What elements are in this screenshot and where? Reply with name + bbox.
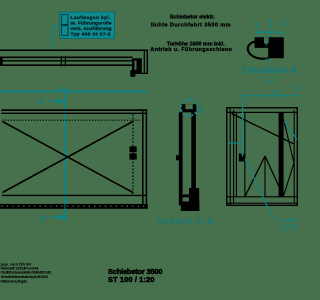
svg-text:X: X [200, 106, 205, 115]
right view top diagonal [232, 114, 295, 145]
section arrow bottom [50, 216, 59, 218]
right view panel edge mid [244, 112, 246, 196]
callout leader [52, 26, 59, 48]
svg-text:ST 100 / 1:20: ST 100 / 1:20 [108, 275, 155, 284]
top view splice tick 2 [64, 56, 66, 67]
svg-text:A: A [40, 213, 46, 223]
detail dim drop 1 [255, 32, 257, 37]
section view top cap notch [185, 104, 192, 109]
front view right post line 2 [145, 110, 147, 205]
section view right wall [191, 112, 196, 202]
right view post bar [279, 112, 284, 196]
right view tent leg 1 [245, 156, 265, 197]
detail dim drop 3 [282, 32, 284, 37]
svg-text:verzinkt: verzinkt [280, 223, 298, 228]
right view center vertical [264, 156, 266, 197]
detail centerline [265, 31, 267, 48]
front view top rail inner [1, 112, 147, 114]
front view hole line top [2, 119, 141, 121]
front view panel right edge dashed [132, 114, 134, 196]
svg-text:verz. Ausführung: verz. Ausführung [71, 26, 112, 32]
front view bottom rail line [2, 194, 147, 196]
detail tick 1 [256, 23, 258, 30]
top view post bottom line [132, 72, 148, 74]
svg-text:3500: 3500 [58, 86, 69, 91]
svg-text:1 : 2: 1 : 2 [266, 75, 276, 80]
detail circle X [181, 99, 198, 116]
front view diagonal 2 [3, 122, 133, 193]
section arrow top [49, 100, 59, 102]
svg-text:Typ 400 St 37-2: Typ 400 St 37-2 [71, 32, 111, 38]
right view hinge nub [239, 153, 245, 161]
svg-text:Einzelheit X: Einzelheit X [243, 66, 297, 75]
front view diagonal 1 [3, 122, 133, 193]
section view hinge nub [176, 155, 180, 160]
svg-text:Schiebetor elektr.: Schiebetor elektr. [170, 15, 215, 21]
right view inner top line [227, 111, 297, 113]
right view outer rect [227, 108, 297, 206]
callout box fill [60, 12, 115, 39]
right view bottom inner line [227, 196, 297, 198]
top view left end cap [0, 57, 3, 66]
right view panel edge left [235, 112, 237, 196]
detail tick 2 [270, 23, 272, 30]
right view vertical dim arrow [241, 153, 244, 158]
svg-text:Schweißnähte umlaufend a=3 n.: Schweißnähte umlaufend a=3 n. EN 1090 [1, 275, 49, 279]
section view foot [181, 202, 200, 212]
svg-text:1312: 1312 [271, 89, 281, 94]
detail notch [264, 37, 269, 43]
top view rail bottom flange [0, 64, 133, 66]
section line A-A [64, 93, 66, 222]
front view track holes [1, 206, 144, 208]
top view rail top flange [0, 56, 133, 58]
svg-text:25: 25 [281, 19, 286, 24]
section view left wall [179, 112, 183, 205]
detail dim drop 2 [270, 32, 272, 37]
svg-text:Laufrolle: Laufrolle [281, 218, 299, 223]
svg-text:m. Führungsrolle: m. Führungsrolle [71, 21, 112, 27]
svg-text:St 37: St 37 [282, 229, 297, 234]
section view crossbar [183, 194, 192, 197]
svg-text:136: 136 [294, 86, 300, 91]
section view top cap [181, 104, 196, 112]
right view right inner line [293, 110, 295, 203]
svg-text:40: 40 [268, 18, 273, 23]
right view left inner line 1 [229, 108, 231, 206]
svg-text:Schnitt A-A: Schnitt A-A [157, 217, 213, 226]
detail tick 3 [283, 24, 286, 28]
right view vertical dim [242, 96, 244, 155]
callout cell 1 [62, 15, 69, 25]
section view lower right block [189, 188, 199, 202]
callout cell 2 [62, 26, 69, 36]
front view lock fitting upper [130, 146, 137, 152]
front view top rail outer [1, 109, 147, 111]
detail body left [255, 37, 284, 58]
svg-text:ø11: ø11 [265, 58, 271, 62]
right view top right teal diagonal [284, 121, 297, 140]
right view right zigzag 1 [284, 119, 295, 163]
right view left tick [228, 142, 242, 144]
detail hook tail [248, 41, 270, 58]
top view splice tick 1 [60, 56, 62, 67]
detail dim line [256, 31, 284, 33]
svg-text:Laufwagen kpl.: Laufwagen kpl. [71, 15, 112, 21]
svg-text:Maße in mm o. Angabe: Maße in mm o. Angabe [1, 280, 28, 284]
top view post slot [134, 61, 136, 70]
right view right zigzag 2 [284, 163, 295, 196]
right view tent leg 2 [265, 156, 284, 197]
right view bottom line 2 [227, 202, 297, 204]
right view leader [245, 159, 278, 220]
section line overlay [64, 197, 67, 204]
top view rail web [0, 60, 133, 62]
right view left inner line 2 [233, 110, 235, 203]
svg-text:Antrieb u. Führungsschiene: Antrieb u. Führungsschiene [150, 47, 232, 53]
svg-text:lichte Durchfahrt 3500 mm: lichte Durchfahrt 3500 mm [151, 22, 231, 28]
top view wall line [0, 50, 147, 73]
svg-text:A: A [38, 97, 44, 107]
top view post outer line [143, 50, 145, 73]
main dimension line [0, 91, 147, 93]
front view bottom track band [0, 204, 148, 209]
top view hinge block [130, 70, 135, 77]
top view post block [132, 58, 142, 73]
front view lock fitting lower [130, 153, 137, 159]
callout leader arrow [51, 46, 54, 50]
front view right post line 1 [142, 110, 144, 205]
right view horizontal dim [242, 95, 300, 97]
